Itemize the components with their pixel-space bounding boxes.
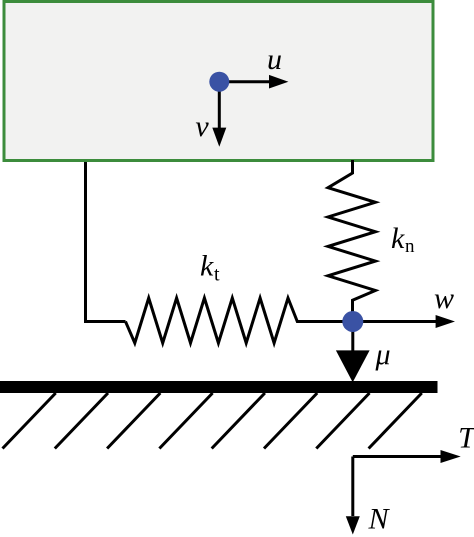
svg-text:k: k <box>391 222 405 255</box>
svg-text:T: T <box>458 422 474 455</box>
svg-text:w: w <box>434 282 454 315</box>
svg-text:μ: μ <box>374 338 390 371</box>
svg-text:N: N <box>367 503 390 536</box>
svg-text:v: v <box>195 110 209 143</box>
svg-text:u: u <box>267 43 282 76</box>
svg-text:t: t <box>214 264 220 286</box>
svg-text:n: n <box>405 236 415 257</box>
svg-text:k: k <box>200 249 214 282</box>
